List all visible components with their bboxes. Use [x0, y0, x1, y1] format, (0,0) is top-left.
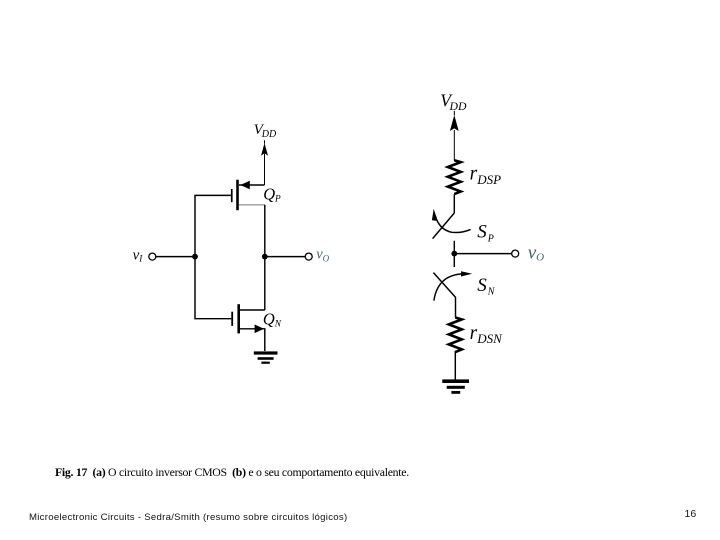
transistor Q_P (PMOS): [231, 180, 265, 211]
terminal output: [305, 253, 312, 260]
switch S_P blade: [433, 213, 455, 239]
switch S_N arrow: [434, 271, 472, 300]
switch S_P arrow: [432, 209, 471, 233]
svg-text:vO: vO: [528, 242, 544, 263]
svg-text:vO: vO: [316, 246, 329, 263]
ground (a): [254, 351, 278, 363]
resistor r_DSP: [448, 160, 461, 194]
page number: [685, 508, 697, 520]
label S_N: [477, 275, 496, 298]
svg-text:rDSN: rDSN: [470, 323, 503, 346]
label v_I: [133, 247, 144, 263]
label VDD (a): [254, 122, 277, 140]
wire output horizontal: [265, 256, 305, 258]
switch S_N blade: [433, 273, 455, 298]
node input junction: [192, 254, 198, 260]
svg-text:vI: vI: [133, 247, 144, 263]
label v_O (a): [316, 246, 329, 263]
label VDD (b): [440, 91, 467, 114]
resistor r_DSN: [449, 318, 462, 353]
wire node to terminal: [454, 253, 511, 255]
wire Q_P drain (gray): [239, 204, 265, 206]
wire input: [156, 256, 195, 258]
power arrow VDD (a): [261, 140, 268, 185]
node output (b): [451, 251, 457, 257]
svg-text:VDD: VDD: [440, 91, 467, 114]
power arrow VDD (b): [450, 111, 459, 161]
wire output vertical: [264, 205, 266, 310]
wire gate net: [195, 195, 231, 318]
wire resistor to ground (b): [454, 351, 456, 380]
svg-text:VDD: VDD: [254, 122, 277, 140]
label v_O (b): [528, 242, 544, 263]
wire node down: [453, 254, 455, 267]
node output junction: [262, 254, 268, 260]
svg-text:QP: QP: [263, 184, 281, 204]
svg-text:QN: QN: [263, 310, 282, 330]
svg-text:SN: SN: [477, 275, 496, 298]
transistor Q_N (NMOS): [231, 304, 264, 351]
svg-text:rDSP: rDSP: [470, 164, 501, 187]
ground (b): [442, 379, 469, 393]
svg-text:SP: SP: [477, 222, 494, 245]
wire resistor to switch S_P: [453, 194, 455, 213]
label S_P: [477, 222, 494, 245]
label Q_P: [263, 184, 281, 204]
terminal input: [149, 253, 156, 260]
caption Fig. 17: [55, 465, 409, 480]
label r_DSN: [470, 323, 503, 346]
footer credit: [29, 512, 347, 523]
terminal output (b): [512, 250, 519, 257]
wire switch S_P to node: [453, 241, 455, 254]
label r_DSP: [470, 164, 501, 187]
label Q_N: [263, 310, 282, 330]
wire switch S_N to resistor: [455, 298, 457, 318]
